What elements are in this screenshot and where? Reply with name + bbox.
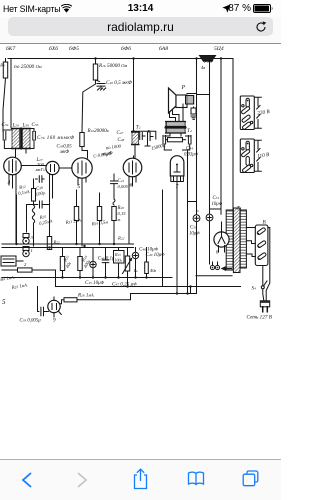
capacitor at speaker — [191, 107, 196, 119]
resistor R27 small — [134, 248, 157, 278]
selector slots — [257, 227, 267, 260]
svg-text:5: 5 — [78, 184, 81, 190]
wire arrow to core — [222, 267, 232, 270]
potentiometer R22v — [123, 248, 132, 287]
wire y270 left — [2, 269, 18, 271]
wire V6 pin to bus — [129, 156, 134, 244]
wire diode to V5 — [59, 167, 72, 169]
tube V8 label — [216, 250, 219, 256]
panel 110V holes — [241, 141, 253, 173]
svg-text:R23: R23 — [114, 252, 121, 257]
transformer T2 winding — [132, 132, 139, 145]
IF1 core — [21, 128, 22, 149]
wire x16.5 lower — [16, 195, 18, 244]
label C38 value — [35, 186, 46, 198]
svg-text:С-0,05μФ: С-0,05μФ — [93, 151, 113, 160]
transformer T3 core — [233, 208, 240, 273]
svg-text:б: б — [130, 182, 133, 189]
svg-text:5: 5 — [2, 298, 6, 306]
resistor R14 — [78, 248, 92, 278]
label R4 1мА — [0, 275, 15, 284]
wire right bus x233 — [232, 59, 234, 212]
svg-text:С35: С35 — [32, 123, 39, 128]
wire speaker down — [170, 104, 184, 122]
tube label 6Ф6 — [121, 46, 131, 52]
wire x196.5 — [196, 59, 198, 215]
svg-text:6К7: 6К7 — [6, 46, 16, 52]
label C47 — [117, 131, 124, 136]
wire x209.5 — [197, 59, 210, 210]
svg-text:Сеть 127 В: Сеть 127 В — [247, 315, 273, 321]
transformer T2 top wire — [132, 130, 156, 139]
svg-text:40в: 40в — [150, 268, 156, 273]
panel 110V plate — [240, 139, 254, 173]
plug prongs — [263, 307, 268, 312]
resistor R22 — [47, 237, 60, 250]
wire speaker to right bus — [187, 93, 197, 95]
svg-text:10μФ: 10μФ — [189, 231, 200, 237]
resistor R18 — [90, 193, 108, 244]
rectifier 5Ц4 plate — [200, 56, 216, 61]
panel 220V holes — [241, 98, 253, 130]
tube V6 pins — [129, 176, 136, 190]
connector jack 3 — [23, 234, 34, 245]
tube V5 label — [78, 184, 81, 190]
svg-text:R19 0,5м: R19 0,5м — [90, 219, 108, 227]
svg-text:9: 9 — [53, 318, 56, 324]
connector jack 1 — [23, 247, 33, 257]
diode tube electrodes — [51, 165, 55, 172]
wire IF1 to tube V4 — [16, 149, 27, 158]
bus y247.5 — [2, 243, 134, 249]
panel 220V plate — [240, 96, 254, 130]
transformer T3 winding left — [226, 210, 233, 270]
label R25 — [38, 215, 53, 227]
label C47 — [112, 281, 137, 287]
svg-text:Т2: Т2 — [136, 125, 141, 131]
tube V9 electrodes — [52, 304, 57, 310]
svg-text:R26 1мА.: R26 1мА. — [77, 293, 95, 299]
tube V9 envelope — [48, 300, 60, 312]
capacitor C49 el — [132, 248, 138, 278]
wire cap C33 drop — [37, 287, 39, 312]
tube V7 base — [171, 176, 184, 182]
transformer T4 winding bottom — [166, 128, 186, 133]
svg-text:С40 0,5 мкФ: С40 0,5 мкФ — [106, 80, 133, 86]
wire y276 under transformer — [196, 275, 232, 277]
bus y244 — [2, 243, 134, 245]
svg-text:2: 2 — [24, 262, 27, 267]
svg-text:по 25000 Ом: по 25000 Ом — [14, 64, 42, 70]
label R21 — [117, 236, 125, 241]
svg-text:R9: R9 — [0, 63, 5, 68]
selector panel B — [255, 225, 268, 266]
tube V5 envelope — [72, 158, 92, 178]
transformer label T3 — [237, 206, 242, 212]
wire B+ top bus — [8, 58, 233, 60]
flex wire — [32, 205, 34, 246]
junction dots on top bus — [94, 57, 222, 59]
svg-text:4в: 4в — [201, 65, 205, 70]
label мкмкФ — [100, 151, 113, 158]
resistor R12 — [32, 179, 36, 205]
transformer label T4 — [187, 128, 192, 134]
capacitor C37 — [27, 201, 50, 208]
resistor R20 — [112, 199, 126, 244]
switch S4 label — [252, 287, 257, 292]
svg-text:R13 2мА.: R13 2мА. — [64, 217, 82, 226]
svg-text:мкФ: мкФ — [59, 150, 69, 155]
label C35 — [32, 123, 39, 128]
tube V8 pins — [219, 222, 225, 252]
panel 220V bracket — [255, 97, 261, 128]
capacitor C51 el — [206, 196, 223, 264]
svg-text:С48: С48 — [118, 138, 125, 143]
tube V7 electrodes — [174, 164, 180, 173]
svg-text:С45 10μФ: С45 10μФ — [85, 280, 105, 286]
resistor R10 — [80, 128, 110, 158]
label по 25000 Ом — [14, 64, 42, 70]
svg-text:С36 160 мкмкФ: С36 160 мкмкФ — [37, 136, 74, 141]
label по 1000 — [106, 144, 122, 151]
svg-text:мкГн: мкГн — [35, 167, 46, 172]
transformer T3 winding right — [240, 210, 246, 268]
resistor R16 — [82, 59, 127, 133]
tube V4 electrodes — [9, 160, 16, 173]
svg-text:8: 8 — [216, 250, 219, 256]
rectifier label 4в — [201, 65, 205, 70]
label C49 — [146, 252, 166, 258]
wire x26.5 from cap — [26, 205, 28, 233]
svg-text:6Ф5: 6Ф5 — [69, 46, 79, 52]
switch S4 — [261, 266, 267, 289]
capacitor C43 — [163, 133, 172, 150]
tube V7 label — [176, 184, 179, 190]
label L30 — [22, 124, 30, 129]
svg-text:110 В: 110 В — [257, 152, 271, 160]
rectifier 5Ц4 filament — [203, 61, 213, 63]
resistor R15 — [60, 248, 72, 278]
capacitor C41 — [111, 174, 129, 199]
wire V4 to diode — [21, 165, 46, 167]
terminal strip — [1, 256, 23, 266]
capacitor C38 — [36, 176, 45, 183]
wire x162.5 — [162, 190, 164, 287]
page number 5 — [2, 298, 6, 306]
selector feed wires — [246, 228, 255, 257]
mains wire right — [266, 228, 270, 301]
svg-text:L29: L29 — [12, 124, 20, 129]
tube V4 envelope — [4, 157, 22, 175]
diode tube pins — [50, 174, 53, 247]
svg-text:100а: 100а — [115, 258, 123, 263]
label C34 — [2, 123, 9, 128]
transformer terminals — [210, 262, 219, 270]
tube V6 envelope — [123, 158, 142, 177]
svg-text:220 В: 220 В — [257, 109, 271, 117]
svg-text:R23 1мА.: R23 1мА. — [10, 282, 28, 291]
label Сеть 127 В — [247, 315, 273, 321]
svg-text:Р: Р — [181, 85, 186, 91]
label C48 — [139, 247, 159, 253]
capacitor C47 sym — [139, 133, 146, 140]
tube V5 pins — [78, 177, 86, 246]
loudspeaker P cone — [169, 88, 177, 113]
transformer label T2 — [136, 125, 141, 131]
loudspeaker label Р — [181, 85, 186, 91]
tube label 6А8 — [159, 46, 168, 52]
capacitor C45 el — [90, 248, 96, 278]
resistor R9 — [0, 59, 8, 131]
loudspeaker body — [176, 95, 187, 108]
svg-text:0,005: 0,005 — [118, 184, 129, 190]
bus y277.5 — [2, 276, 172, 278]
tube V7 envelope — [170, 156, 184, 176]
capacitor C33 — [20, 307, 49, 323]
resistor R26 — [64, 293, 131, 302]
wire y293.5 — [131, 287, 197, 295]
transformer T4 winding top — [166, 122, 186, 127]
svg-text:С33 0,005μ: С33 0,005μ — [20, 319, 42, 324]
wire x198 speaker return — [197, 210, 199, 212]
tube V8 electrodes — [218, 233, 225, 244]
capacitor C48 sym — [145, 133, 153, 147]
label L27 — [35, 158, 46, 172]
tube V6 electrodes — [129, 161, 136, 174]
svg-text:1н: 1н — [134, 268, 138, 273]
tube V4 label — [8, 180, 11, 186]
label C48 — [118, 138, 125, 143]
wire x221 — [220, 59, 222, 215]
mains wire left — [263, 289, 264, 301]
svg-text:6Х6: 6Х6 — [49, 46, 58, 52]
wire x177 tube V7 down — [176, 182, 178, 294]
tube label 5Ц4 — [214, 46, 224, 52]
tube V9 label — [53, 318, 56, 324]
transformer T4 core — [165, 126, 186, 129]
tube V6 label — [130, 182, 133, 189]
label L29 — [12, 124, 20, 129]
capacitor C46 sym — [102, 248, 109, 278]
loudspeaker field coil — [186, 96, 194, 105]
label 110 В — [257, 152, 271, 160]
selector label B — [263, 220, 267, 226]
wire IF1 top — [3, 129, 34, 131]
svg-text:1: 1 — [31, 248, 33, 253]
wire T2 to tube V6 — [134, 128, 136, 158]
svg-text:Ѕ4: Ѕ4 — [252, 287, 257, 292]
svg-text:С48 10μФ: С48 10μФ — [139, 247, 159, 253]
label 220 В — [257, 109, 271, 117]
label C39 — [57, 145, 73, 156]
coil L29 — [12, 129, 20, 149]
label C37 005 — [93, 151, 113, 160]
resistor R24 horizontal — [18, 268, 56, 287]
tube label 6Х6 — [49, 46, 58, 52]
label C46 — [98, 256, 119, 262]
wire left vertical — [10, 59, 12, 129]
svg-text:6А8: 6А8 — [159, 46, 168, 52]
wire x187.5 — [187, 150, 189, 294]
svg-text:R16 50000 Ом: R16 50000 Ом — [98, 63, 127, 69]
svg-text:м.: м. — [117, 217, 122, 222]
resistor R17 — [151, 138, 186, 152]
resistor R13 — [64, 190, 82, 244]
tube V9 pins — [54, 297, 61, 317]
plug body — [260, 301, 269, 307]
wire y299.8 — [59, 300, 64, 304]
svg-text:С47: С47 — [117, 131, 124, 136]
capacitor C35 — [30, 130, 35, 149]
svg-text:4: 4 — [8, 180, 11, 186]
resistor R23 boxed — [114, 248, 125, 278]
panel 110V bracket — [255, 140, 261, 171]
svg-text:С34: С34 — [2, 123, 9, 128]
svg-text:Т4: Т4 — [187, 128, 192, 134]
label C36 160 — [37, 136, 74, 141]
capacitor C44 — [181, 133, 199, 158]
label R23 1мА — [10, 282, 28, 291]
tube V5 electrodes — [78, 161, 86, 175]
svg-text:С390,05: С390,05 — [57, 145, 73, 150]
tube V4 pins — [9, 175, 16, 245]
tube V8 envelope — [214, 232, 229, 247]
tube label 6К7 — [6, 46, 16, 52]
svg-text:L30: L30 — [22, 124, 30, 129]
svg-text:R1020000в.: R1020000в. — [87, 128, 110, 134]
coil L30 — [22, 129, 30, 149]
svg-text:по 1000: по 1000 — [106, 144, 122, 151]
svg-text:6Ф6: 6Ф6 — [121, 46, 131, 52]
label R12 — [18, 185, 31, 197]
bus y286.5 — [56, 285, 241, 287]
svg-text:5Ц4: 5Ц4 — [214, 46, 224, 52]
capacitor C50 el — [188, 202, 201, 294]
wire to T2 primary — [133, 59, 135, 132]
tube label 6Ф5 — [69, 46, 79, 52]
connector label 2 — [24, 262, 27, 267]
capacitor C40 — [96, 80, 133, 90]
svg-text:R22: R22 — [117, 236, 125, 241]
svg-text:R4 1мА.: R4 1мА. — [0, 275, 15, 284]
capacitor C34 — [3, 130, 12, 149]
diode tube envelope — [46, 161, 59, 174]
label C45 10 — [85, 280, 105, 286]
